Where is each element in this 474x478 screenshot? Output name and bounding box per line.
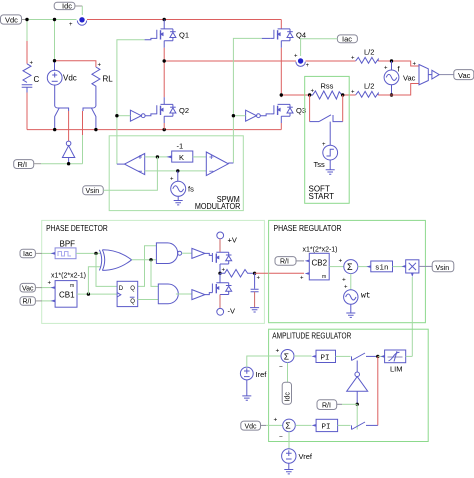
- node Rss left: [308, 93, 311, 96]
- wire wt to summer green: [350, 274, 352, 290]
- svg-text:+: +: [344, 285, 348, 291]
- multiplier MUL1: [402, 260, 419, 277]
- current sensor Iac (blue dot + arc): [294, 54, 310, 70]
- wire multiplier out: [419, 265, 432, 267]
- wire CB1 out green: [77, 293, 117, 295]
- group box AMPLITUDE REGULATOR: [269, 329, 429, 441]
- probe R/I label (control input): [317, 400, 342, 410]
- svg-text:R/I: R/I: [18, 160, 28, 169]
- wire Iac to BPF green: [42, 252, 55, 254]
- wire top DC bus green segment: [27, 19, 77, 21]
- switch Sss (soft-start bypass): [310, 115, 343, 145]
- transistor Q4 (MOSFET): [271, 29, 293, 48]
- svg-text:Vac: Vac: [403, 74, 416, 83]
- resistor RL: [92, 63, 113, 106]
- ground under Vref: [284, 463, 293, 474]
- node LIM input: [376, 355, 379, 358]
- svg-text:Vdc: Vdc: [5, 15, 18, 24]
- wire LIM to multiplier green riser: [411, 277, 413, 356]
- svg-text:−: −: [279, 434, 283, 441]
- wire SPWM left comparator output riser green: [117, 40, 145, 164]
- svg-text:Tss: Tss: [314, 160, 326, 169]
- svg-text:x1*(2*x2-1): x1*(2*x2-1): [303, 247, 338, 254]
- wire R/I to CB1 green: [42, 300, 55, 302]
- node dots power stage: [25, 18, 28, 21]
- svg-text:+: +: [413, 62, 417, 68]
- wire R/I to controllers green: [41, 163, 83, 165]
- wire Iac probe to sensor green: [301, 39, 338, 56]
- svg-text:Q: Q: [130, 286, 135, 292]
- probe Vdc (DC-link voltage probe label): [1, 15, 28, 24]
- summer SUM1: [344, 260, 358, 274]
- svg-text:Vsin: Vsin: [436, 265, 450, 272]
- wire LIM out green: [406, 355, 413, 357]
- wire control down to SW2 green: [356, 404, 358, 429]
- node Vsin junction: [156, 155, 159, 158]
- wire switch common red riser: [377, 356, 379, 425]
- source wt (unit sine): [344, 285, 371, 305]
- switch SW1 (PI select upper): [352, 353, 378, 372]
- svg-text:BPF: BPF: [60, 239, 76, 248]
- gain block K (-1): [167, 142, 193, 162]
- svg-text:+V: +V: [228, 236, 237, 245]
- svg-text:+: +: [351, 56, 355, 62]
- probe Vac label: [454, 70, 474, 80]
- ground under Cf: [250, 308, 259, 312]
- wire PI out green: [336, 355, 351, 357]
- wire modulating + line green: [145, 156, 172, 158]
- svg-text:Vsin: Vsin: [86, 188, 100, 195]
- svg-text:Idc: Idc: [62, 2, 72, 11]
- svg-text:RL: RL: [103, 75, 114, 84]
- node BPF out: [94, 252, 97, 255]
- svg-text:R/I: R/I: [23, 299, 32, 306]
- svg-text:L/2: L/2: [364, 48, 374, 57]
- wire top output node to sensor red: [392, 61, 420, 66]
- svg-text:+: +: [276, 348, 280, 355]
- wire CMP2 output stub: [228, 162, 233, 164]
- node fs junction: [176, 169, 179, 172]
- wire right leg mid to Rss red: [281, 94, 309, 96]
- flip-flop FF1 (D-type): [117, 281, 138, 306]
- svg-text:PHASE DETECTOR: PHASE DETECTOR: [46, 223, 108, 233]
- svg-text:Vac: Vac: [22, 285, 34, 292]
- probe R/I label (input): [275, 257, 304, 266]
- svg-text:Iac: Iac: [23, 251, 33, 258]
- svg-text:+: +: [274, 417, 278, 424]
- wire NAND out to buffer: [182, 252, 192, 254]
- wire Rss right to L/2 bottom red: [343, 94, 356, 96]
- svg-text:m: m: [322, 274, 326, 280]
- node XOR out: [149, 258, 152, 261]
- wire K out green: [193, 156, 207, 158]
- wire left leg bottom red: [163, 123, 165, 130]
- svg-text:Q1: Q1: [179, 31, 189, 40]
- wire C bottom red to bottom bus: [26, 93, 28, 130]
- probe Vdc label (input): [241, 421, 266, 430]
- terminal -V: [217, 307, 235, 316]
- svg-text:LIM: LIM: [390, 365, 403, 374]
- wire right leg bottom red: [280, 123, 282, 130]
- block BPF (band pass filter): [51, 239, 77, 258]
- capacitor Cf (loop filter): [251, 273, 259, 292]
- svg-text:x1*(2*x2-1): x1*(2*x2-1): [51, 273, 86, 280]
- node riser/Q2 junction: [115, 114, 118, 117]
- wire buffer to M2 gate: [205, 293, 213, 295]
- wire Vref to summer3 green: [288, 432, 290, 449]
- wire CB1 out to XOR green: [88, 267, 101, 294]
- probe Vsin label (output): [432, 261, 454, 272]
- wire Cf to ground red: [254, 292, 256, 308]
- node R/I control junction: [356, 403, 359, 406]
- node CB1 out: [87, 292, 90, 295]
- wire Iac sensor to L/2 top red: [306, 60, 356, 62]
- wire left leg output red to Iac sensor: [164, 60, 296, 62]
- svg-text:PI: PI: [322, 424, 331, 432]
- inductor L/2 (bottom): [351, 82, 378, 98]
- svg-text:wt: wt: [361, 292, 371, 301]
- wire L/2 bottom to output node red: [378, 94, 391, 96]
- svg-text:AMPLITUDE REGULATOR: AMPLITUDE REGULATOR: [272, 331, 351, 341]
- resistor Rf (loop filter): [220, 270, 255, 278]
- source Tss (step, switch control): [314, 142, 338, 169]
- comparator CMP1 (left, output to left): [125, 154, 145, 175]
- block sin: [366, 261, 392, 273]
- block CB1 (squarer): [48, 281, 78, 308]
- svg-text:+: +: [300, 276, 304, 282]
- summer SUM3: [274, 417, 296, 441]
- svg-text:Q2: Q2: [179, 106, 189, 115]
- transistor Q1 (MOSFET): [154, 20, 176, 48]
- buffer U2 (bottom): [192, 290, 205, 300]
- wire right leg top red: [280, 20, 282, 29]
- transistor M2 (charge pump bottom): [212, 273, 231, 294]
- wire summer out green: [358, 266, 371, 268]
- inductor L/2 (top): [351, 48, 378, 64]
- probe R/I label (input): [20, 297, 42, 306]
- probe Vac label (input): [20, 283, 42, 292]
- wire filter out to CB2 red: [255, 272, 304, 274]
- voltage sensor Vac (trapezoid + amp): [413, 62, 440, 85]
- wire Idc to summer green: [287, 363, 289, 383]
- svg-text:-1: -1: [177, 142, 184, 151]
- svg-text:+: +: [257, 276, 261, 282]
- source Vdc (battery): [47, 61, 76, 106]
- svg-text:Vdc: Vdc: [245, 423, 258, 430]
- node right leg mid: [280, 93, 283, 96]
- wire left vertical from Vdc probe node down to C (green then red): [26, 20, 28, 42]
- wire Rss bypass right red: [342, 95, 344, 122]
- svg-text:sin: sin: [375, 265, 389, 273]
- gate AND: [158, 284, 178, 304]
- wire PI2 out green: [338, 424, 351, 426]
- wire left leg mid red: [163, 48, 165, 97]
- node R/I junction: [67, 162, 70, 165]
- source fs (triangular carrier): [170, 171, 194, 196]
- probe Idc label (rotated input): [282, 382, 291, 404]
- switch S2 (right, under RL): [83, 106, 96, 130]
- switch S1 (left, under Vdc source): [55, 106, 69, 130]
- svg-text:−: −: [279, 364, 283, 371]
- svg-text:K: K: [179, 153, 184, 162]
- wire BPF out to FF D green: [96, 253, 117, 286]
- block PI (voltage loop): [312, 419, 338, 431]
- probe Idc label: [54, 2, 82, 15]
- gate XOR: [99, 250, 131, 271]
- wire Q4 gate stub blue: [262, 37, 271, 39]
- svg-text:-V: -V: [228, 307, 236, 316]
- gate NAND: [156, 243, 181, 264]
- svg-text:fs: fs: [188, 185, 194, 194]
- source Iref: [240, 367, 267, 380]
- probe Vsin label (modulating input): [83, 186, 104, 195]
- comparator CMP2 (right): [206, 152, 228, 176]
- group box PHASE REGULATOR: [269, 220, 426, 322]
- transistor Q3 (MOSFET): [271, 104, 293, 123]
- wire top DC bus red segment: [87, 19, 281, 21]
- wire summer2 out green: [294, 355, 312, 357]
- label R/I (run/inhibit): [14, 160, 41, 169]
- gate driver NOT gate for Q3: [246, 110, 271, 121]
- wire Vdc to summer3 green: [266, 424, 283, 426]
- svg-text:Iac: Iac: [342, 35, 352, 44]
- wire node A to RL red: [55, 61, 96, 67]
- ground under wt: [346, 304, 355, 317]
- wire S2 gate (red top, green bottom): [82, 111, 84, 135]
- group box PHASE DETECTOR: [42, 220, 265, 323]
- wire S1 gate red: [68, 111, 70, 141]
- svg-text:Σ: Σ: [347, 262, 353, 272]
- wire AND out to buffer: [176, 293, 192, 295]
- wire FF Q to NAND green: [138, 246, 157, 287]
- summer SUM2: [276, 348, 295, 371]
- inverter NOT3 (switch control): [347, 372, 368, 404]
- node filter out: [253, 272, 256, 275]
- svg-text:+: +: [30, 61, 34, 67]
- ground under Iref: [242, 380, 251, 400]
- buffer U1 (top): [192, 248, 205, 258]
- wire BPF out green: [76, 252, 101, 254]
- wire Q1 gate stub blue: [145, 38, 154, 39]
- wire sin out green: [393, 266, 406, 268]
- group box SOFT START: [305, 76, 350, 203]
- svg-text:C: C: [34, 75, 40, 84]
- probe Iac label (input): [20, 249, 42, 258]
- wire R/I to control node green: [342, 403, 357, 405]
- block PI (current loop): [311, 350, 335, 362]
- wire node A vertical green from bus: [54, 20, 56, 61]
- svg-text:m: m: [70, 283, 74, 289]
- svg-text:R/I: R/I: [322, 403, 331, 410]
- wire M2 to -V: [219, 295, 221, 309]
- ground under fs: [174, 196, 183, 205]
- svg-text:CB2: CB2: [312, 259, 328, 268]
- svg-text:+: +: [384, 66, 388, 72]
- wire FF Qbar to AND green: [138, 299, 159, 301]
- probe Iac label: [337, 35, 357, 44]
- svg-text:+: +: [170, 177, 174, 183]
- wire buffer to M1 gate: [205, 253, 213, 255]
- wire bottom output node to sensor red: [392, 84, 420, 96]
- switch SW2 (PI select lower): [352, 422, 378, 430]
- terminal +V: [217, 232, 237, 252]
- svg-text:Q: Q: [130, 299, 135, 305]
- svg-text:+: +: [306, 63, 310, 69]
- wire riser to Q3 NOT input: [233, 115, 245, 117]
- svg-text:Σ: Σ: [284, 351, 289, 361]
- wire Vsin to + inputs green: [103, 157, 157, 190]
- svg-text:+: +: [342, 277, 346, 284]
- source f (AC load voltage Vac): [384, 61, 416, 95]
- svg-text:PI: PI: [321, 355, 330, 363]
- source Vref: [282, 449, 313, 463]
- node left leg mid: [163, 59, 166, 62]
- svg-text:Vref: Vref: [299, 452, 313, 461]
- svg-text:Rss: Rss: [321, 82, 334, 91]
- svg-text:MODULATOR: MODULATOR: [195, 202, 241, 211]
- wire Rss bypass left red: [309, 95, 311, 122]
- node charge pump mid: [218, 272, 221, 275]
- wire SPWM right comparator output riser green: [233, 38, 261, 162]
- svg-text:+: +: [294, 54, 298, 60]
- svg-text:+: +: [339, 258, 343, 265]
- node output bottom: [390, 93, 393, 96]
- svg-text:+: +: [48, 281, 52, 287]
- wire carrier - line green: [145, 170, 207, 172]
- node riser/Q3 junction: [232, 114, 235, 117]
- ground under Tss: [326, 160, 335, 174]
- svg-text:+: +: [322, 142, 326, 148]
- block CB2: [300, 253, 329, 281]
- wire riser to Q2 NOT input: [117, 115, 130, 117]
- wire into LIM: [378, 355, 385, 357]
- wire L/2 top to output node red: [378, 60, 391, 62]
- wire M1 to mid node: [219, 264, 221, 273]
- wire sensor to Vac probe: [439, 74, 454, 76]
- svg-text:R/I: R/I: [280, 259, 289, 266]
- group box SPWM MODULATOR: [109, 136, 243, 211]
- on-off controller (inverting, for S1): [62, 141, 74, 164]
- node Rss right: [341, 93, 344, 96]
- wire XOR out to AND green: [151, 260, 158, 287]
- svg-text:Idc: Idc: [284, 392, 291, 402]
- svg-text:Σ: Σ: [285, 421, 290, 431]
- wire XOR out green: [132, 259, 157, 261]
- wire Vac to CB1 green: [42, 287, 55, 289]
- wire bottom DC bus red: [27, 129, 281, 131]
- svg-text:Q4: Q4: [296, 31, 306, 40]
- block LIM (limiter): [380, 350, 405, 374]
- svg-text:+: +: [69, 22, 73, 28]
- capacitor C (electrolytic: zigzag + plates): [22, 61, 40, 93]
- gate driver NOT gate for Q2: [130, 110, 153, 121]
- wire summer3 out green: [295, 424, 311, 426]
- wire CB2 out green: [329, 266, 344, 268]
- svg-text:+: +: [98, 63, 102, 69]
- node output top: [390, 59, 393, 62]
- transistor Q2 (MOSFET): [154, 97, 176, 123]
- wire CMP1 output stub: [117, 163, 125, 165]
- svg-text:Iref: Iref: [256, 370, 268, 379]
- transistor M1 (charge pump top): [212, 252, 231, 264]
- svg-text:D: D: [119, 286, 124, 292]
- wire Iref to summer green: [247, 356, 281, 367]
- svg-text:Vac: Vac: [458, 71, 471, 80]
- resistor Rss: [310, 82, 342, 100]
- svg-text:CB1: CB1: [59, 291, 75, 300]
- wire right leg mid red: [280, 48, 282, 97]
- svg-text:+: +: [311, 89, 315, 95]
- svg-text:PHASE REGULATOR: PHASE REGULATOR: [274, 223, 342, 233]
- svg-text:L/2: L/2: [364, 82, 374, 91]
- svg-text:Vdc: Vdc: [63, 74, 77, 83]
- svg-text:START: START: [309, 192, 335, 201]
- current sensor Idc (blue dot + arc): [69, 17, 87, 28]
